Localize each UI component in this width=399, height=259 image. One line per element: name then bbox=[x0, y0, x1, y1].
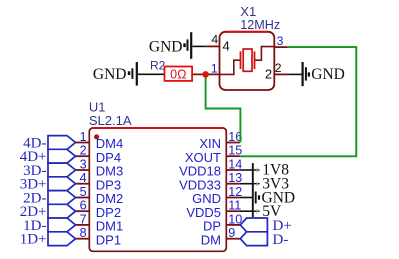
svg-text:DP4: DP4 bbox=[96, 150, 121, 165]
svg-text:DM1: DM1 bbox=[96, 219, 123, 234]
svg-text:3: 3 bbox=[80, 157, 87, 171]
svg-text:XOUT: XOUT bbox=[185, 150, 221, 165]
svg-text:R2: R2 bbox=[150, 58, 166, 72]
svg-text:1: 1 bbox=[80, 130, 87, 144]
svg-text:2: 2 bbox=[275, 61, 282, 75]
svg-text:GND: GND bbox=[311, 66, 345, 83]
svg-text:GND: GND bbox=[149, 38, 183, 55]
svg-text:5: 5 bbox=[80, 185, 87, 199]
svg-text:X1: X1 bbox=[240, 4, 256, 19]
svg-text:9: 9 bbox=[228, 226, 235, 240]
svg-text:8: 8 bbox=[80, 226, 87, 240]
svg-text:D-: D- bbox=[273, 232, 289, 248]
svg-text:GND: GND bbox=[262, 189, 296, 206]
svg-text:11: 11 bbox=[228, 199, 241, 213]
svg-text:4: 4 bbox=[211, 33, 218, 47]
svg-text:1D+: 1D+ bbox=[20, 232, 47, 248]
svg-text:6: 6 bbox=[80, 199, 87, 213]
svg-text:DM: DM bbox=[201, 232, 221, 247]
svg-text:GND: GND bbox=[93, 66, 127, 83]
svg-text:VDD33: VDD33 bbox=[179, 177, 221, 192]
svg-text:4: 4 bbox=[223, 39, 230, 54]
svg-text:7: 7 bbox=[80, 212, 87, 226]
svg-text:DP1: DP1 bbox=[96, 232, 121, 247]
svg-text:0Ω: 0Ω bbox=[170, 68, 186, 82]
svg-text:1: 1 bbox=[211, 61, 218, 75]
svg-text:3: 3 bbox=[277, 34, 284, 48]
svg-text:4: 4 bbox=[80, 171, 87, 185]
svg-text:2: 2 bbox=[265, 67, 272, 82]
svg-text:SL2.1A: SL2.1A bbox=[89, 113, 132, 128]
svg-text:2: 2 bbox=[80, 144, 87, 158]
svg-text:12MHz: 12MHz bbox=[240, 18, 280, 32]
svg-text:DP: DP bbox=[203, 219, 221, 234]
svg-text:DP3: DP3 bbox=[96, 177, 121, 192]
